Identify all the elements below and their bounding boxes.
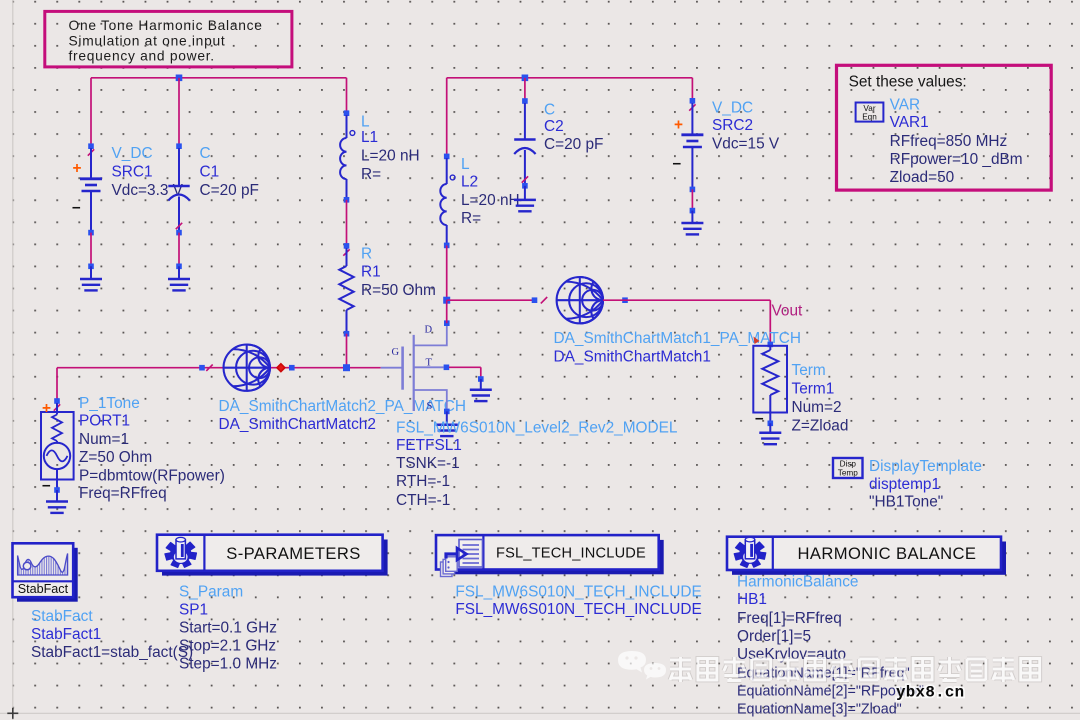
svg-text:HARMONIC BALANCE: HARMONIC BALANCE xyxy=(797,544,976,563)
svg-text:–: – xyxy=(755,410,764,427)
wire C1 to ground xyxy=(178,233,180,267)
svg-text:R1: R1 xyxy=(361,263,381,280)
wire FET thermal to ground xyxy=(449,367,481,379)
label DA_SmithChartMatch2 xyxy=(219,398,466,433)
svg-text:C1: C1 xyxy=(200,164,220,181)
op-amp U-match DA_SmithChartMatch2 icon xyxy=(224,345,270,391)
svg-text:Term: Term xyxy=(792,362,826,379)
node pin smith1 input xyxy=(532,297,548,303)
svg-text:Stop=2.1 GHz: Stop=2.1 GHz xyxy=(179,637,276,654)
svg-text:R=: R= xyxy=(461,210,481,227)
svg-text:D: D xyxy=(425,324,433,335)
wire smith1 to Vout corner xyxy=(603,300,770,344)
svg-text:Zload=50: Zload=50 xyxy=(890,169,955,186)
node junction rail1-C1 xyxy=(176,75,183,82)
node Vout label xyxy=(772,302,804,319)
svg-text:C2: C2 xyxy=(544,118,564,135)
node current probe marker xyxy=(277,364,285,372)
svg-text:L2: L2 xyxy=(461,173,478,190)
wire drain node to smith1 xyxy=(447,299,535,301)
svg-text:Vout: Vout xyxy=(772,302,804,319)
svg-text:+: + xyxy=(42,400,51,417)
svg-text:P=dbmtow(RFpower): P=dbmtow(RFpower) xyxy=(79,467,225,484)
svg-text:SP1: SP1 xyxy=(179,601,208,618)
ground Term1 xyxy=(759,421,781,445)
svg-text:+: + xyxy=(674,117,683,134)
watermark logo and text xyxy=(618,651,1040,682)
svg-text:DA_SmithChartMatch1_PA_MATCH: DA_SmithChartMatch1_PA_MATCH xyxy=(554,330,801,347)
transistor FETFSL1 xyxy=(381,326,447,411)
wire 3.3V rail xyxy=(91,77,347,79)
wire L2 to drain node xyxy=(446,245,448,300)
display template icon disptemp1 xyxy=(833,458,863,478)
svg-text:Set these values:: Set these values: xyxy=(849,73,967,90)
svg-text:–: – xyxy=(673,155,682,172)
node pin smith1 output xyxy=(622,297,628,303)
svg-text:FSL_MW6S010N_TECH_INCLUDE: FSL_MW6S010N_TECH_INCLUDE xyxy=(455,584,701,601)
pin labels FETFSL1 xyxy=(392,324,433,412)
svg-text:Vdc=15 V: Vdc=15 V xyxy=(712,135,780,152)
svg-text:V_DC: V_DC xyxy=(112,145,153,162)
node pin FET source xyxy=(444,409,450,415)
svg-text:L=20 nH: L=20 nH xyxy=(361,147,420,164)
variable block VAR1 icon xyxy=(856,103,884,122)
svg-text:StabFact1=stab_fact(S): StabFact1=stab_fact(S) xyxy=(31,644,193,661)
DC source SRC1 xyxy=(72,143,102,235)
svg-text:HB1: HB1 xyxy=(737,591,767,608)
svg-text:One Tone Harmonic Balance: One Tone Harmonic Balance xyxy=(69,18,263,33)
svg-text:FSL_MW6S010N_Level2_Rev2_MODEL: FSL_MW6S010N_Level2_Rev2_MODEL xyxy=(396,419,678,436)
svg-text:CTH=-1: CTH=-1 xyxy=(396,492,450,509)
inductor L1 xyxy=(340,110,355,202)
svg-text:Num=2: Num=2 xyxy=(792,399,842,416)
include block FSL_TECH_INCLUDE xyxy=(436,535,664,576)
svg-text:Num=1: Num=1 xyxy=(79,431,129,448)
node pin FET thermal xyxy=(444,365,450,371)
svg-text:"HB1Tone": "HB1Tone" xyxy=(869,494,943,511)
svg-text:RTH=-1: RTH=-1 xyxy=(396,473,450,490)
port P_1Tone PORT1 xyxy=(41,398,74,494)
svg-text:–: – xyxy=(72,199,81,216)
svg-text:Disp: Disp xyxy=(840,460,857,469)
node pin smith2 output xyxy=(289,365,295,371)
svg-text:Freq=RFfreq: Freq=RFfreq xyxy=(79,485,167,502)
svg-text:Order[1]=5: Order[1]=5 xyxy=(737,628,811,645)
capacitor C1 xyxy=(168,143,189,235)
svg-text:Term1: Term1 xyxy=(792,380,835,397)
wire rail1 to C1 xyxy=(178,78,180,146)
svg-text:V_DC: V_DC xyxy=(712,99,753,116)
svg-text:Eqn: Eqn xyxy=(862,112,877,121)
svg-text:L: L xyxy=(361,114,370,131)
svg-text:Start=0.1 GHz: Start=0.1 GHz xyxy=(179,619,277,636)
ground FET thermal xyxy=(470,376,492,401)
svg-text:S_Param: S_Param xyxy=(179,583,243,600)
label HB1 xyxy=(737,573,924,717)
wire drain node to FET drain xyxy=(446,300,448,323)
svg-text:L1: L1 xyxy=(361,129,378,146)
svg-text:Z=50 Ohm: Z=50 Ohm xyxy=(79,449,152,466)
ground SRC1 xyxy=(80,264,102,291)
svg-text:StabFact: StabFact xyxy=(18,582,69,596)
node pin smith2 input xyxy=(199,365,213,371)
annotation set-values box xyxy=(837,65,1052,190)
inductor L2 xyxy=(440,154,455,249)
svg-text:Freq[1]=RFfreq: Freq[1]=RFfreq xyxy=(737,610,842,627)
label L1 xyxy=(361,114,420,183)
DC source SRC2 xyxy=(673,98,704,192)
label SRC2 xyxy=(712,99,780,152)
label R1 xyxy=(361,245,436,298)
svg-text:L: L xyxy=(461,156,470,173)
label C1 xyxy=(200,145,259,199)
svg-text:G: G xyxy=(392,347,400,358)
label FSL_MW6S010N_TECH_INCLUDE xyxy=(455,584,701,619)
wire SRC2 to ground xyxy=(691,189,693,210)
label DA_SmithChartMatch1 xyxy=(554,330,801,366)
svg-text:R=50 Ohm: R=50 Ohm xyxy=(361,282,436,299)
svg-text:StabFact: StabFact xyxy=(31,608,93,625)
svg-text:FSL_MW6S010N_TECH_INCLUDE: FSL_MW6S010N_TECH_INCLUDE xyxy=(455,601,701,618)
ground C1 xyxy=(168,264,190,291)
svg-text:HarmonicBalance: HarmonicBalance xyxy=(737,573,858,590)
svg-text:DA_SmithChartMatch2: DA_SmithChartMatch2 xyxy=(219,416,376,433)
ground PORT1 xyxy=(46,487,68,513)
svg-text:–: – xyxy=(42,477,51,494)
label VAR1 xyxy=(890,97,1023,186)
label FETFSL1 xyxy=(396,419,678,509)
svg-text:VAR: VAR xyxy=(890,97,921,114)
wire SRC1 to ground xyxy=(90,233,92,267)
wire 15V rail xyxy=(447,77,693,79)
svg-text:C=20 pF: C=20 pF xyxy=(200,182,259,199)
wire rail1 to L1 xyxy=(346,78,348,113)
svg-text:R=: R= xyxy=(361,166,381,183)
svg-text:FSL_TECH_INCLUDE: FSL_TECH_INCLUDE xyxy=(496,546,646,562)
wire rail2 to L2 xyxy=(446,78,448,157)
ground SRC2 xyxy=(681,208,703,235)
svg-text:Step=1.0 MHz: Step=1.0 MHz xyxy=(179,655,277,672)
wire rail2 to SRC2 xyxy=(691,78,693,101)
label PORT1 xyxy=(79,395,225,502)
svg-text:R: R xyxy=(361,245,372,262)
svg-text:disptemp1: disptemp1 xyxy=(869,476,940,493)
simulation block HARMONIC BALANCE xyxy=(727,537,1006,575)
origin cross marker xyxy=(7,708,18,719)
svg-text:SRC1: SRC1 xyxy=(112,164,153,181)
svg-text:L=20 nH: L=20 nH xyxy=(461,192,520,209)
label Term1 xyxy=(792,362,849,435)
wire gate net to PORT1 xyxy=(56,368,58,401)
label C2 xyxy=(544,102,603,154)
wire matching network to gate xyxy=(270,367,381,369)
node junction R1-gate xyxy=(343,364,350,371)
wire rail1 to SRC1 xyxy=(90,78,92,146)
svg-text:DA_SmithChartMatch1: DA_SmithChartMatch1 xyxy=(554,349,711,366)
wire rail2 to C2 xyxy=(524,78,526,101)
svg-text:S-PARAMETERS: S-PARAMETERS xyxy=(226,544,361,563)
label StabFact1 xyxy=(31,608,193,661)
svg-text:StabFact1: StabFact1 xyxy=(31,626,101,643)
op-amp U-match DA_SmithChartMatch1 icon xyxy=(557,277,603,323)
svg-text:SRC2: SRC2 xyxy=(712,117,753,134)
node pin Term1 top with marker xyxy=(754,337,774,348)
node junction rail2-C2 xyxy=(522,75,529,82)
svg-text:ybx8.cn: ybx8.cn xyxy=(896,684,964,702)
wire L1 to R1 xyxy=(346,200,348,246)
svg-text:C=20 pF: C=20 pF xyxy=(544,136,603,153)
svg-text:C: C xyxy=(544,102,555,119)
svg-text:S: S xyxy=(427,401,433,412)
svg-text:frequency and power.: frequency and power. xyxy=(69,49,215,64)
watermark url text xyxy=(896,684,964,702)
wire port to matching network input xyxy=(57,367,224,369)
ground FET source xyxy=(436,411,458,436)
terminator Term1 xyxy=(753,346,787,427)
capacitor C2 xyxy=(514,98,535,188)
node junction L2-drain xyxy=(443,297,450,304)
svg-text:P_1Tone: P_1Tone xyxy=(79,395,140,412)
simulation block S-PARAMETERS xyxy=(157,535,388,576)
svg-text:PORT1: PORT1 xyxy=(79,413,130,430)
wire R1 to gate node xyxy=(346,334,348,368)
svg-text:+: + xyxy=(73,160,82,177)
ground C2 xyxy=(514,186,536,212)
label SRC1 xyxy=(112,145,184,199)
svg-text:C: C xyxy=(200,145,211,162)
svg-text:Temp: Temp xyxy=(838,468,858,477)
label disptemp1 xyxy=(869,458,982,510)
svg-text:TSNK=-1: TSNK=-1 xyxy=(396,455,460,472)
svg-text:FETFSL1: FETFSL1 xyxy=(396,437,462,454)
svg-text:VAR1: VAR1 xyxy=(890,114,929,131)
svg-text:T: T xyxy=(426,358,433,369)
svg-text:RFfreq=850 MHz: RFfreq=850 MHz xyxy=(890,133,1008,150)
node pin FET drain xyxy=(444,320,450,326)
resistor R1 xyxy=(339,243,353,336)
label L2 xyxy=(461,156,520,227)
svg-text:EquationName[3]="Zload": EquationName[3]="Zload" xyxy=(737,702,902,718)
annotation note box xyxy=(45,11,292,67)
svg-text:DisplayTemplate: DisplayTemplate xyxy=(869,458,982,475)
measurement block StabFact1 xyxy=(13,543,78,601)
svg-text:Z=Zload: Z=Zload xyxy=(792,417,849,434)
label SP1 xyxy=(179,583,277,672)
svg-text:RFpower=10 _dBm: RFpower=10 _dBm xyxy=(890,151,1023,168)
svg-text:Simulation at one input: Simulation at one input xyxy=(69,34,226,49)
